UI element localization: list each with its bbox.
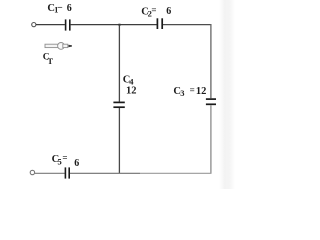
- svg-text:=: =: [190, 85, 195, 95]
- svg-text:3: 3: [180, 88, 184, 98]
- capacitor C3: [206, 98, 216, 100]
- svg-text:5: 5: [58, 156, 62, 166]
- svg-text:6: 6: [166, 6, 171, 17]
- terminal (top left): [32, 23, 36, 27]
- CT probe arrow: [45, 43, 72, 50]
- capacitor C5: [64, 167, 66, 178]
- scan shading band: [219, 0, 235, 189]
- wire bottom: C5 to mid: [70, 172, 140, 174]
- svg-text:12: 12: [126, 85, 137, 96]
- terminal (bottom left): [30, 170, 34, 174]
- wire: right branch lower: [210, 105, 212, 173]
- wire top: terminal to C1: [36, 24, 65, 26]
- node: junction top of middle branch: [118, 24, 120, 26]
- svg-text:12: 12: [196, 86, 207, 97]
- capacitor C1: [65, 19, 67, 30]
- svg-text:=: =: [62, 152, 67, 162]
- wire bottom: terminal to C5: [35, 172, 65, 174]
- svg-text:=: =: [151, 5, 156, 15]
- wire bottom: mid to right corner: [140, 172, 212, 174]
- wire: middle branch upper: [118, 25, 120, 102]
- capacitor C4: [113, 101, 124, 103]
- wire top: C2 to right corner: [163, 24, 212, 26]
- capacitor C2: [156, 18, 158, 29]
- wire: middle branch lower: [118, 108, 120, 173]
- wire top: C1 to C2: [71, 24, 157, 26]
- wire: right branch upper: [210, 24, 212, 98]
- svg-text:6: 6: [67, 3, 72, 14]
- svg-text:T: T: [47, 56, 53, 66]
- svg-text:–: –: [57, 2, 63, 12]
- svg-text:6: 6: [74, 158, 79, 169]
